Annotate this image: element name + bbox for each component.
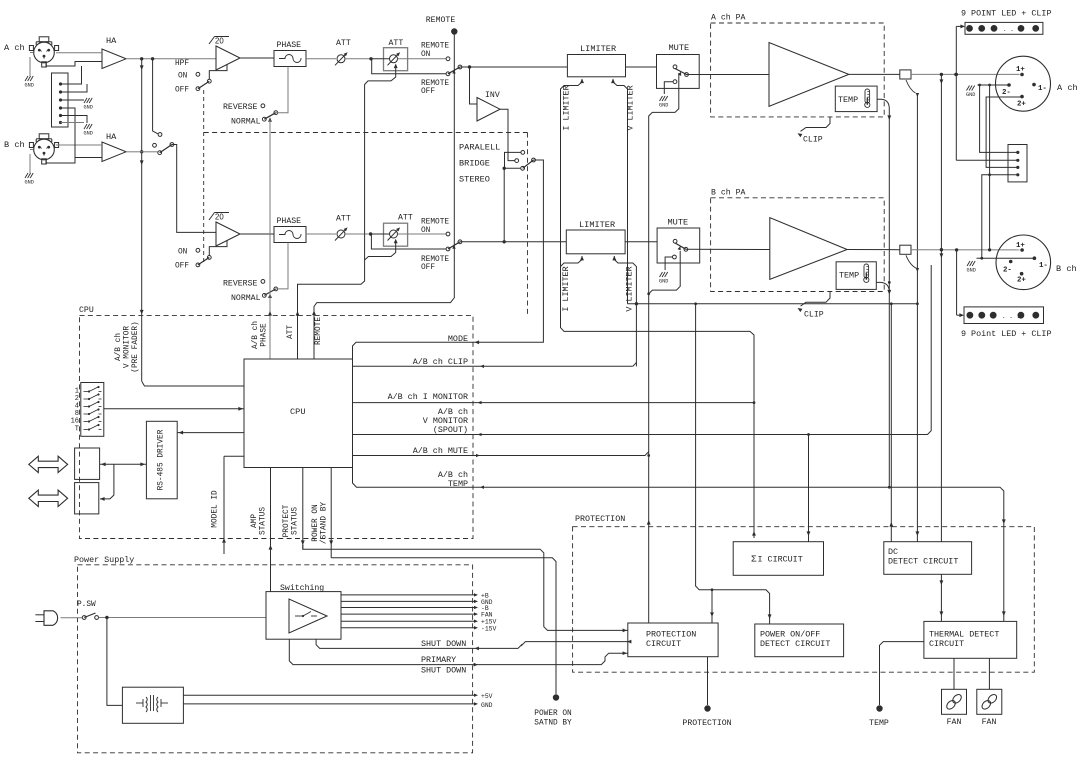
- svg-text:ATT: ATT: [336, 39, 351, 48]
- svg-text:GND: GND: [84, 105, 93, 111]
- svg-text:A/B ch MUTE: A/B ch MUTE: [413, 446, 468, 456]
- svg-text:OFF: OFF: [421, 264, 435, 272]
- svg-text:PHASE: PHASE: [277, 217, 302, 226]
- svg-text:PARALELL: PARALELL: [459, 143, 500, 153]
- svg-text:A/B ch I MONITOR: A/B ch I MONITOR: [388, 392, 468, 402]
- svg-text:GND: GND: [659, 279, 668, 285]
- svg-text:GND: GND: [25, 83, 34, 89]
- svg-text:REMOTE: REMOTE: [426, 16, 456, 25]
- svg-text:/STAND BY: /STAND BY: [321, 502, 329, 544]
- svg-text:V MONITOR: V MONITOR: [124, 326, 132, 368]
- svg-text:POWER ON: POWER ON: [534, 710, 572, 718]
- svg-text:(SPOUT): (SPOUT): [433, 425, 468, 435]
- svg-text:A/B ch: A/B ch: [115, 333, 123, 361]
- svg-text:CPU: CPU: [290, 407, 305, 417]
- svg-text:ON: ON: [178, 249, 188, 257]
- svg-text:I LIMITER: I LIMITER: [562, 85, 572, 130]
- svg-text:Power Supply: Power Supply: [74, 555, 134, 565]
- svg-text:GND: GND: [966, 92, 975, 98]
- svg-text:B ch: B ch: [4, 140, 25, 150]
- svg-text:B ch: B ch: [1056, 264, 1077, 274]
- svg-text:2+: 2+: [1017, 277, 1026, 285]
- svg-text:PHASE: PHASE: [261, 323, 269, 347]
- svg-text:A ch: A ch: [4, 43, 25, 53]
- svg-text:INV: INV: [485, 91, 500, 100]
- svg-text:PROTECTION: PROTECTION: [682, 719, 731, 728]
- svg-text:REMOTE: REMOTE: [421, 43, 449, 51]
- svg-text:. . .: . . .: [1002, 313, 1020, 320]
- svg-text:REMOTE: REMOTE: [315, 317, 323, 345]
- svg-text:2-: 2-: [1003, 267, 1012, 275]
- svg-text:P.SW: P.SW: [77, 601, 96, 609]
- svg-text:HPF: HPF: [175, 60, 189, 68]
- svg-text:MODE: MODE: [448, 334, 468, 344]
- svg-text:16: 16: [71, 418, 79, 426]
- svg-text:ATT: ATT: [287, 325, 295, 339]
- svg-text:HA: HA: [106, 132, 117, 142]
- svg-text:SATND BY: SATND BY: [534, 720, 572, 728]
- svg-text:CIRCUIT: CIRCUIT: [929, 639, 964, 649]
- svg-text:9 POINT LED + CLIP: 9 POINT LED + CLIP: [961, 9, 1051, 19]
- svg-text:AMP: AMP: [251, 514, 259, 528]
- svg-text:MODEL ID: MODEL ID: [212, 490, 220, 528]
- svg-text:ATT: ATT: [398, 214, 413, 223]
- svg-text:-15V: -15V: [481, 625, 497, 632]
- svg-text:PROTECT: PROTECT: [283, 504, 291, 537]
- svg-text:I LIMITER: I LIMITER: [561, 266, 571, 311]
- svg-text:LIMITER: LIMITER: [580, 44, 616, 54]
- svg-text:LIMITER: LIMITER: [579, 220, 615, 230]
- svg-text:1-: 1-: [1038, 85, 1047, 93]
- svg-text:ON: ON: [421, 51, 431, 59]
- svg-text:CIRCUIT: CIRCUIT: [646, 639, 681, 649]
- svg-text:PROTECTION: PROTECTION: [575, 514, 625, 524]
- svg-text:FAN: FAN: [982, 718, 997, 727]
- svg-text:GND: GND: [84, 131, 93, 137]
- svg-text:B ch PA: B ch PA: [711, 188, 745, 198]
- svg-text:A/B ch: A/B ch: [252, 321, 260, 349]
- svg-text:CLIP: CLIP: [803, 136, 823, 145]
- svg-text:PHASE: PHASE: [277, 41, 302, 50]
- svg-text:STEREO: STEREO: [459, 175, 490, 185]
- svg-text:A ch PA: A ch PA: [711, 13, 745, 23]
- svg-text:REMOTE: REMOTE: [421, 80, 449, 88]
- svg-text:1-: 1-: [1039, 262, 1048, 270]
- svg-text:DETECT CIRCUIT: DETECT CIRCUIT: [760, 639, 830, 649]
- svg-text:ON: ON: [178, 73, 188, 81]
- svg-text:HA: HA: [106, 36, 117, 46]
- svg-text:+5V: +5V: [481, 693, 493, 700]
- svg-text:2-: 2-: [1002, 89, 1011, 97]
- svg-text:20: 20: [215, 37, 224, 46]
- svg-text:1+: 1+: [1016, 66, 1025, 74]
- svg-text:PRIMARY: PRIMARY: [421, 655, 456, 665]
- svg-text:CPU: CPU: [79, 306, 94, 315]
- svg-text:FAN: FAN: [481, 612, 493, 619]
- svg-text:20: 20: [215, 213, 224, 222]
- svg-text:ON: ON: [421, 227, 431, 235]
- svg-text:ATT: ATT: [389, 39, 404, 48]
- svg-text:TEMP: TEMP: [839, 271, 859, 281]
- svg-text:TEMP: TEMP: [869, 719, 889, 728]
- svg-text:SHUT DOWN: SHUT DOWN: [421, 666, 466, 676]
- svg-text:BRIDGE: BRIDGE: [459, 159, 490, 169]
- svg-text:RS-485 DRIVER: RS-485 DRIVER: [157, 429, 165, 490]
- svg-text:GND: GND: [659, 103, 668, 109]
- svg-text:STATUS: STATUS: [260, 507, 268, 535]
- svg-text:MUTE: MUTE: [669, 43, 690, 53]
- svg-text:MUTE: MUTE: [668, 218, 689, 228]
- svg-text:ATT: ATT: [336, 215, 351, 224]
- svg-text:STATUS: STATUS: [292, 507, 300, 535]
- svg-text:DETECT CIRCUIT: DETECT CIRCUIT: [888, 557, 958, 567]
- svg-text:GND: GND: [967, 268, 976, 274]
- svg-text:REVERSE: REVERSE: [223, 103, 257, 112]
- svg-text:GND: GND: [481, 702, 493, 709]
- svg-text:OFF: OFF: [175, 263, 189, 271]
- svg-text:PROTECTION: PROTECTION: [646, 630, 696, 640]
- svg-text:REVERSE: REVERSE: [223, 280, 257, 289]
- svg-text:POWER ON/OFF: POWER ON/OFF: [760, 630, 820, 640]
- svg-text:9 Point LED + CLIP: 9 Point LED + CLIP: [961, 329, 1051, 339]
- svg-text:I CIRCUIT: I CIRCUIT: [758, 555, 803, 565]
- svg-text:FAN: FAN: [947, 718, 962, 727]
- svg-text:THERMAL DETECT: THERMAL DETECT: [929, 630, 999, 640]
- svg-text:. . .: . . .: [1003, 26, 1021, 33]
- svg-text:V LIMITER: V LIMITER: [625, 266, 635, 311]
- svg-text:SHUT DOWN: SHUT DOWN: [421, 639, 466, 649]
- svg-text:1+: 1+: [1016, 242, 1025, 250]
- svg-text:V LIMITER: V LIMITER: [626, 85, 636, 130]
- svg-text:(PRE FADER): (PRE FADER): [132, 321, 140, 372]
- svg-text:OFF: OFF: [175, 87, 189, 95]
- svg-text:POWER ON: POWER ON: [312, 504, 320, 542]
- svg-text:NORMAL: NORMAL: [231, 294, 261, 303]
- svg-text:A/B ch CLIP: A/B ch CLIP: [413, 357, 468, 367]
- svg-text:DC: DC: [888, 547, 898, 557]
- svg-text:TEMP: TEMP: [838, 95, 858, 105]
- svg-text:GND: GND: [25, 180, 34, 186]
- svg-text:CLIP: CLIP: [804, 311, 824, 320]
- svg-text:NORMAL: NORMAL: [231, 118, 261, 127]
- svg-text:Σ: Σ: [751, 554, 757, 565]
- svg-text:REMOTE: REMOTE: [421, 256, 449, 264]
- svg-text:OFF: OFF: [421, 88, 435, 96]
- svg-text:2+: 2+: [1017, 101, 1026, 109]
- svg-text:A ch: A ch: [1057, 83, 1078, 93]
- svg-text:REMOTE: REMOTE: [421, 219, 449, 227]
- svg-text:Switching: Switching: [280, 583, 324, 593]
- svg-text:T: T: [75, 426, 79, 434]
